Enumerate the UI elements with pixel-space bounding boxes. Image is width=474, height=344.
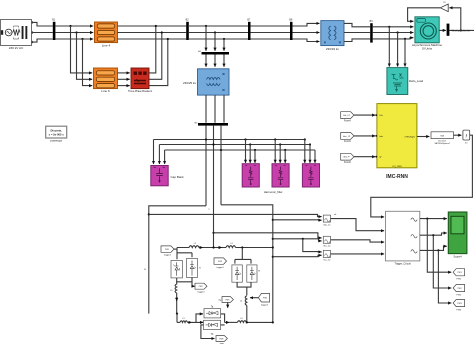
node a [155, 25, 157, 27]
wire filter3 drops [304, 138, 315, 163]
wire feeder v1 [205, 126, 207, 206]
svg-text:PW4: PW4 [263, 298, 267, 300]
wire shunt rail c [165, 149, 315, 151]
arrow mid [176, 297, 178, 301]
wire left pair join [177, 277, 192, 281]
bus measurement bar [447, 24, 450, 36]
node left corner [176, 313, 178, 323]
wire out3 to goto PW3 [437, 249, 451, 303]
wire source b [32, 32, 53, 34]
wire M2 to trigger [331, 240, 385, 242]
node rail junctions TCR [212, 246, 274, 248]
harmonic filter F3 block [302, 164, 319, 187]
harmonic filter F1 block [242, 164, 259, 187]
wire B4 to transformer a [205, 55, 207, 67]
wire L4 down [246, 305, 248, 322]
thyristor T1 [171, 261, 182, 278]
wire From5 to IMC [354, 135, 377, 137]
svg-text:Rello_Load: Rello_Load [409, 79, 424, 83]
node drop b [214, 31, 216, 50]
svg-text:IMC-RNN: IMC-RNN [386, 174, 408, 180]
svg-text:From5: From5 [344, 140, 351, 143]
svg-text:trigger4: trigger4 [261, 303, 269, 306]
thyristor T3 [232, 265, 242, 282]
wire breaker up b [149, 33, 162, 80]
svg-text:fcn: fcn [465, 142, 468, 144]
svg-text:230/25 kv: 230/25 kv [183, 81, 197, 85]
node rail junctions [205, 138, 222, 151]
wire B7 to B8 c [251, 38, 291, 40]
svg-text:Vca_inv: Vca_inv [323, 260, 330, 262]
wire B8 to T2 c [293, 39, 320, 42]
wire Line4 to B2 phase a [118, 25, 187, 27]
gain m triangle [440, 2, 448, 12]
svg-text:PW1: PW1 [457, 279, 463, 281]
tag goto PW1 [453, 269, 465, 281]
wire right pair split [235, 248, 251, 264]
svg-text:Wind speed (m/s): Wind speed (m/s) [452, 31, 470, 33]
svg-text:PW3: PW3 [218, 261, 222, 263]
wire B7 to B8 a [251, 25, 291, 27]
wire TCR feed left [149, 206, 206, 314]
svg-text:trig: trig [218, 298, 221, 301]
wire machine output [439, 29, 446, 31]
wire transformer to B5 c [223, 95, 225, 123]
node load drop c [404, 38, 406, 67]
measurement block M3 [323, 250, 330, 261]
node branch b to Line6 [75, 31, 92, 79]
wire L5 to Ta Tb [188, 321, 192, 323]
wire trigger out3 [420, 246, 447, 250]
svg-text:From6: From6 [344, 161, 351, 164]
wire bottom chain right [247, 321, 273, 323]
wire B7 to B8 b [251, 32, 291, 34]
node load drop a [388, 26, 390, 67]
source V1 230 kV AC [1, 20, 34, 50]
wire to meas3 in1 [302, 238, 322, 252]
bus B1 [52, 19, 56, 40]
svg-text:PW3: PW3 [457, 309, 463, 311]
wire B2 to B7 phase c [189, 38, 248, 40]
wire transformer to B5 a [205, 95, 207, 123]
function f block [463, 130, 470, 144]
arrow into Tb [200, 321, 204, 323]
svg-text:m: m [444, 2, 446, 4]
inductor L3 vertical [170, 282, 177, 293]
wire to meas2 in2 [272, 238, 322, 241]
svg-text:B4: B4 [198, 51, 201, 53]
node drop c [223, 38, 225, 51]
svg-text:SAT2/RelSystem2: SAT2/RelSystem2 [435, 142, 450, 145]
tag From PW2 trigger2 [195, 283, 207, 293]
wire trigger out2 [420, 233, 447, 235]
node bottom joins [246, 321, 274, 323]
wire out1 to goto PW1 [426, 218, 451, 273]
svg-text:L3: L3 [170, 290, 173, 292]
wire to meas2 in1 [212, 232, 321, 238]
svg-text:B1: B1 [52, 19, 56, 22]
wire Line4 to B2 phase c [118, 38, 187, 40]
tag From4 Vdc [341, 112, 354, 123]
wire TCR feed right edge [221, 205, 273, 323]
svg-text:Harmonic_filter: Harmonic_filter [264, 190, 283, 194]
wire T2 to B3 c [344, 39, 370, 42]
tag From PW5 [218, 297, 233, 303]
svg-text:Vbc_inv: Vbc_inv [323, 246, 330, 248]
svg-text:Vdc_LP: Vdc_LP [343, 115, 351, 117]
svg-text:a: a [144, 268, 146, 271]
wire Tb loop to PW6 [201, 325, 215, 339]
wire T2 to B3 b [344, 32, 370, 34]
wire PW1 tag to gate [174, 248, 177, 250]
svg-text:Iabc_LP: Iabc_LP [343, 136, 351, 138]
wire cap bank drop a [153, 140, 155, 165]
wire source a [32, 22, 53, 26]
node b [161, 31, 163, 33]
wire L3 down to corner [176, 293, 178, 314]
thyristor T4 [247, 265, 260, 282]
svg-text:B2: B2 [186, 19, 190, 22]
wire B1 to Line4 phase a [55, 25, 93, 27]
wire left pair split [177, 248, 192, 260]
saturation block [431, 132, 454, 145]
controller IMC-RNN block [377, 104, 417, 181]
svg-text:Trigger_Circuit: Trigger_Circuit [394, 263, 411, 266]
harmonic filter F2 block [264, 164, 289, 195]
tag From PW6 [216, 336, 227, 344]
inductor L1 [189, 243, 199, 248]
svg-text:B3: B3 [370, 20, 374, 23]
svg-text:Iabc: Iabc [379, 136, 383, 138]
wire shunt rail a [154, 139, 305, 141]
svg-text:Three-Phase Breaker1: Three-Phase Breaker1 [128, 90, 153, 93]
svg-text:PW2: PW2 [457, 294, 463, 296]
svg-text:Discrete,: Discrete, [51, 129, 63, 133]
node drop a [205, 25, 207, 51]
wire T2 to PW2 [192, 282, 195, 286]
wire TCR top rail [177, 247, 273, 249]
node load drop b [397, 31, 399, 66]
svg-text:PW3: PW3 [458, 303, 462, 305]
wire From6 to IMC [354, 156, 377, 158]
wire filter1 drops [244, 138, 256, 163]
svg-text:Cap Bank: Cap Bank [171, 175, 185, 179]
svg-text:PW1: PW1 [458, 272, 462, 274]
bus B4 horizontal [198, 51, 229, 54]
svg-text:Tb: Tb [211, 334, 214, 336]
svg-text:L6: L6 [241, 318, 244, 320]
asynchronous machine block [412, 17, 442, 51]
powergui block [46, 126, 67, 142]
svg-text:230 kV AC: 230 kV AC [9, 46, 24, 50]
wire control loop to trigger [371, 135, 473, 217]
svg-text:L2: L2 [231, 243, 234, 245]
tag goto PW2 [453, 285, 465, 297]
wire Ta Tb outputs [221, 314, 230, 325]
tag From PW4 trigger4 [258, 293, 269, 306]
bus B7 [247, 19, 251, 40]
svg-text:PW2: PW2 [458, 288, 462, 290]
thyristor pair Tb [204, 320, 221, 336]
wire M3 to trigger [331, 253, 385, 255]
line L4 block [95, 22, 118, 48]
trigger control subsystem [386, 211, 420, 265]
wire sat to f [454, 134, 462, 136]
wire shunt rail b [159, 144, 310, 146]
breaker CB1 block [128, 68, 153, 93]
wire B1 to Line4 phase b [55, 32, 93, 34]
wire B2 to B7 phase b [189, 32, 248, 34]
svg-text:Vab_inv: Vab_inv [323, 224, 330, 226]
svg-text:B7: B7 [247, 19, 251, 22]
inductor L4 vertical [240, 296, 247, 306]
wire feeder v2 [213, 126, 215, 248]
load Rello_Load block [387, 68, 424, 95]
wire to meas3 in2 [272, 255, 322, 258]
thyristor T2 [187, 259, 201, 278]
tag From6 Iq [341, 153, 354, 164]
svg-text:ICQ_RNN: ICQ_RNN [392, 166, 402, 168]
bus B5 horizontal [195, 122, 228, 125]
svg-text:L5: L5 [183, 318, 186, 320]
wire source c [32, 39, 53, 42]
svg-text:Iq*: Iq* [379, 157, 382, 159]
node branch a to Line6 [69, 25, 92, 73]
transformer T2 230/33 kv [321, 21, 344, 51]
measurement block M1 [323, 214, 337, 226]
wire feeder v3 [220, 126, 222, 205]
capacitor bank block [151, 166, 184, 186]
svg-text:PW1: PW1 [165, 249, 169, 251]
wire trigger out1 [420, 218, 447, 220]
wire Line6 to breaker c [118, 85, 130, 87]
wire cap bank drop b [158, 145, 160, 165]
svg-text:a: a [208, 208, 210, 210]
wire B3 to machine a [373, 26, 414, 28]
wire breaker up a [149, 26, 156, 73]
svg-text:trigger2: trigger2 [197, 290, 205, 293]
wire B8 to T2 b [293, 32, 320, 34]
wire transformer to B5 b [214, 95, 216, 123]
tag goto PW3 [453, 300, 465, 312]
inductor L2 [226, 243, 236, 248]
inductor L6 [237, 318, 246, 322]
wire PW4 to gate [250, 297, 258, 299]
line L6 block [94, 68, 118, 93]
transformer T1 230/25 kv [183, 69, 229, 95]
svg-text:trigger1: trigger1 [164, 254, 172, 257]
wire filter2 drops [274, 138, 286, 163]
svg-text:B5: B5 [195, 122, 198, 124]
svg-text:PW5: PW5 [225, 299, 229, 301]
wire B1 to Line4 phase c [55, 38, 93, 40]
wire T2 to B3 a [344, 23, 370, 26]
arrow into Ta [200, 313, 203, 315]
svg-text:Vdc: Vdc [379, 115, 383, 117]
svg-text:Line 6: Line 6 [101, 89, 110, 93]
wire right pair join [237, 282, 251, 295]
wire B4 to transformer c [223, 55, 225, 67]
svg-text:PW2: PW2 [199, 286, 203, 288]
svg-text:L4: L4 [240, 301, 243, 303]
svg-text:T3: T3 [258, 271, 260, 273]
wire Line6 to breaker a [118, 72, 130, 74]
svg-text:s = 2e-005 s: s = 2e-005 s [49, 133, 65, 137]
node branch c to Line6 [81, 38, 92, 86]
tag From5 Iabc [341, 133, 354, 144]
node c [167, 38, 169, 40]
svg-text:Line 4: Line 4 [102, 44, 111, 48]
wire B8 to T2 a [293, 23, 320, 26]
wire cap bank drop c [164, 150, 166, 164]
svg-text:L1: L1 [194, 243, 197, 245]
svg-text:From4: From4 [344, 119, 351, 122]
svg-text:IM_LP*: IM_LP* [343, 157, 350, 159]
wire From4 to IMC [354, 114, 377, 116]
wire M1 to trigger [331, 219, 385, 231]
bus B8 [289, 19, 293, 40]
wire out2 to goto PW2 [432, 234, 451, 288]
svg-text:SI Units: SI Units [422, 47, 433, 51]
inductor L5 [180, 318, 188, 322]
wire PW5 to Ta [227, 302, 229, 307]
svg-text:OHM-Right: OHM-Right [404, 136, 415, 139]
wire Line6 to breaker b [118, 78, 130, 80]
wire breaker up c [149, 39, 168, 86]
svg-text:Scope4: Scope4 [454, 255, 463, 258]
wire IMC output [417, 136, 430, 138]
svg-text:trigger3: trigger3 [216, 266, 224, 269]
svg-text:230/33 kv: 230/33 kv [326, 47, 340, 51]
wire B3 to machine b [373, 32, 414, 34]
measurement block M2 [323, 236, 330, 247]
scope block [448, 212, 467, 258]
bus B3 [370, 20, 374, 43]
svg-text:powergui: powergui [50, 139, 62, 143]
thyristor pair Ta [204, 307, 221, 318]
wire B2 to B7 phase a [189, 25, 248, 27]
wire to meas1 [148, 213, 322, 216]
bus B2 [186, 19, 190, 40]
wire to edge [449, 29, 474, 31]
wire to meas1 in2 [272, 219, 322, 221]
tag From PW3 trigger3 [214, 258, 227, 269]
svg-text:T2: T2 [199, 268, 201, 270]
svg-text:ab: ab [334, 214, 337, 216]
wire speed tap to gain [449, 8, 462, 32]
tag From PW1 trigger1 [161, 246, 174, 257]
wire B3 to machine c [373, 38, 414, 39]
wire Line4 to B2 phase b [118, 32, 187, 34]
svg-text:PW6: PW6 [219, 338, 223, 340]
wire B4 to transformer b [214, 55, 216, 67]
wire bottom chain left [177, 321, 180, 323]
svg-text:B8: B8 [289, 19, 293, 22]
wire gain to machine Tm [408, 8, 441, 21]
